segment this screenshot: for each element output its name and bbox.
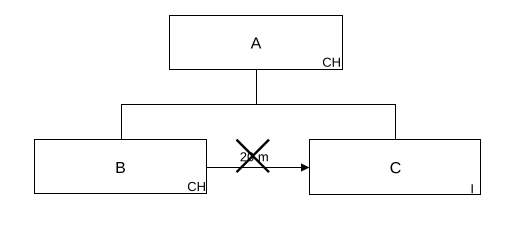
label 20 m xyxy=(240,152,267,161)
box A xyxy=(170,16,343,70)
box B xyxy=(35,140,207,194)
wire A stem xyxy=(256,70,258,105)
arrow B to C xyxy=(207,163,310,171)
box C xyxy=(310,140,481,195)
wire connector A to B and C xyxy=(122,105,396,140)
cross X over arrow xyxy=(237,140,270,173)
